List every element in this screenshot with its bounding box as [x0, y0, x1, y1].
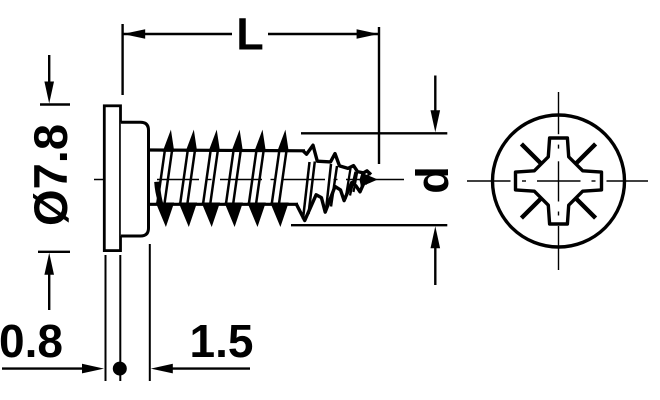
- dimension 0.8 line: [2, 367, 84, 369]
- dimension 1.5 extension line: [149, 244, 151, 381]
- Pozidriv wings: [521, 144, 595, 218]
- front view vertical centerline: [558, 92, 560, 134]
- dimension 7.8 arrow top stem: [48, 55, 50, 86]
- dimension 7.8 extension tick top: [40, 103, 70, 105]
- dimension boundary dot: [113, 362, 127, 376]
- svg-text:1.5: 1.5: [190, 315, 254, 367]
- dimension L line left segment: [123, 33, 232, 35]
- dimension L line right segment: [268, 33, 379, 35]
- dimension d arrowhead top: [431, 110, 441, 132]
- dimension d arrow top stem: [434, 76, 436, 116]
- dimension d line top: [301, 132, 447, 134]
- screw head body: [121, 122, 149, 236]
- screw head outline circle: [493, 115, 625, 247]
- dimension 1.5 line: [172, 367, 250, 369]
- front view horizontal centerline: [467, 180, 511, 182]
- dimension 7.8 arrow bottom stem: [48, 270, 50, 310]
- svg-text:Ø7.8: Ø7.8: [24, 124, 77, 226]
- dimension 0.8 extension line: [105, 255, 107, 381]
- screw head flange: [104, 106, 120, 251]
- dimension d arrow bottom stem: [434, 244, 436, 285]
- screw axis centerline: [94, 179, 137, 181]
- svg-text:L: L: [236, 9, 264, 60]
- dimension L arrowhead left: [123, 29, 145, 39]
- dimension d line bottom: [291, 224, 447, 226]
- dimension 7.8 arrowhead bottom: [44, 253, 54, 275]
- dimension 7.8 extension tick bottom: [38, 251, 70, 253]
- dimension L extension line left: [121, 24, 123, 95]
- dimension 7.8 arrowhead top: [44, 82, 54, 104]
- Pozidriv cross recess outline: [516, 138, 602, 224]
- screw thread: [150, 134, 378, 225]
- dimension 1.5 arrowhead: [151, 364, 173, 374]
- svg-text:0.8: 0.8: [0, 315, 63, 367]
- dimension 0.8 arrowhead: [82, 364, 104, 374]
- dimension d arrowhead bottom: [431, 226, 441, 248]
- dimension L extension line right: [378, 27, 380, 164]
- shared extension line: [119, 255, 121, 381]
- dimension L arrowhead right: [357, 29, 379, 39]
- svg-text:d: d: [407, 166, 458, 194]
